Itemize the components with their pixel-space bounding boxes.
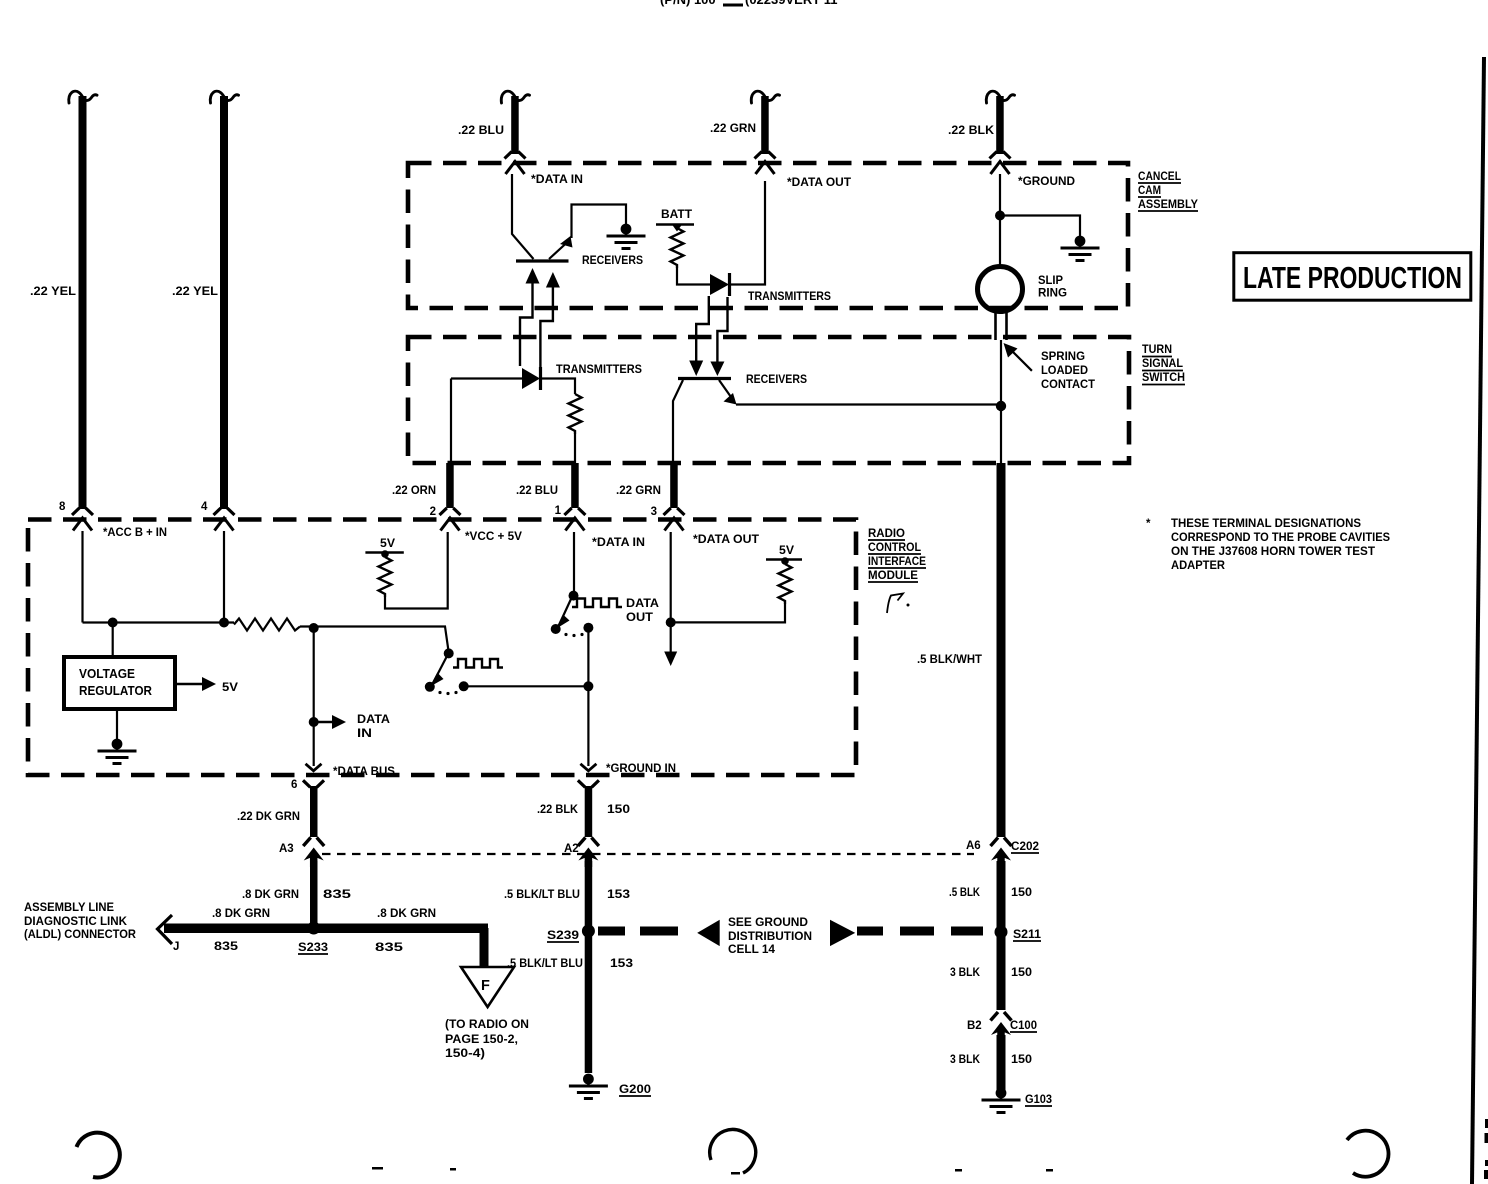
svg-text:INTERFACE: INTERFACE <box>868 556 926 568</box>
svg-text:SWITCH: SWITCH <box>1142 372 1185 384</box>
svg-text:A6: A6 <box>966 840 981 852</box>
svg-text:RADIO: RADIO <box>868 528 905 540</box>
svg-text:OUT: OUT <box>626 612 653 624</box>
svg-text:S211: S211 <box>1013 929 1042 941</box>
svg-text:153: 153 <box>607 889 630 901</box>
svg-text:150: 150 <box>607 804 630 816</box>
svg-text:BATT: BATT <box>661 209 692 221</box>
svg-text:*GROUND: *GROUND <box>1018 176 1075 188</box>
svg-text:3 BLK: 3 BLK <box>950 967 981 979</box>
svg-text:.5 BLK/WHT: .5 BLK/WHT <box>917 654 982 666</box>
svg-text:J: J <box>173 941 179 953</box>
svg-text:.22 YEL: .22 YEL <box>30 286 76 298</box>
svg-text:S239: S239 <box>547 930 579 942</box>
svg-text:.22 GRN: .22 GRN <box>616 485 661 497</box>
svg-text:A2: A2 <box>564 843 579 855</box>
svg-text:DIAGNOSTIC LINK: DIAGNOSTIC LINK <box>24 916 128 928</box>
svg-text:5V: 5V <box>222 682 238 694</box>
svg-text:835: 835 <box>375 942 404 954</box>
svg-text:C202: C202 <box>1011 841 1039 853</box>
svg-text:CORRESPOND TO THE PROBE CAVITI: CORRESPOND TO THE PROBE CAVITIES <box>1171 532 1390 544</box>
svg-text:835: 835 <box>214 941 239 953</box>
svg-text:CELL 14: CELL 14 <box>728 944 776 956</box>
svg-text:CONTROL: CONTROL <box>868 542 921 554</box>
svg-text:6: 6 <box>291 779 297 791</box>
svg-text:LATE PRODUCTION: LATE PRODUCTION <box>1243 261 1462 295</box>
svg-text:TURN: TURN <box>1142 344 1172 356</box>
svg-text:S233: S233 <box>298 942 328 954</box>
svg-text:DATA: DATA <box>357 714 390 726</box>
svg-text:4: 4 <box>201 501 208 513</box>
svg-text:3: 3 <box>651 506 657 518</box>
svg-text:*DATA OUT: *DATA OUT <box>693 534 759 546</box>
svg-text:G103: G103 <box>1025 1094 1052 1106</box>
svg-text:*GROUND IN: *GROUND IN <box>606 763 676 775</box>
svg-text:(TO RADIO ON: (TO RADIO ON <box>445 1019 529 1031</box>
svg-text:3 BLK: 3 BLK <box>950 1054 981 1066</box>
svg-text:CANCEL: CANCEL <box>1138 171 1181 183</box>
svg-text:DISTRIBUTION: DISTRIBUTION <box>728 931 812 943</box>
svg-text:150: 150 <box>1011 887 1032 899</box>
svg-text:150: 150 <box>1011 1054 1032 1066</box>
svg-text:RING: RING <box>1038 288 1067 300</box>
svg-text:*: * <box>1146 518 1151 530</box>
svg-text:SLIP: SLIP <box>1038 275 1063 287</box>
svg-text:8: 8 <box>59 501 66 513</box>
svg-text:.5 BLK/LT BLU: .5 BLK/LT BLU <box>504 889 580 901</box>
svg-text:THESE TERMINAL DESIGNATIONS: THESE TERMINAL DESIGNATIONS <box>1171 518 1361 530</box>
svg-text:.22 ORN: .22 ORN <box>392 485 436 497</box>
svg-text:*VCC + 5V: *VCC + 5V <box>465 531 522 543</box>
svg-text:*ACC B + IN: *ACC B + IN <box>103 527 167 539</box>
svg-text:1: 1 <box>555 505 562 517</box>
svg-text:PAGE 150-2,: PAGE 150-2, <box>445 1034 518 1046</box>
svg-text:.22 GRN: .22 GRN <box>710 123 756 135</box>
svg-text:.22 BLK: .22 BLK <box>948 125 995 137</box>
svg-text:153: 153 <box>610 958 633 970</box>
svg-text:.8 DK GRN: .8 DK GRN <box>212 908 270 920</box>
svg-text:.22 BLK: .22 BLK <box>537 804 579 816</box>
svg-text:2: 2 <box>430 506 436 518</box>
svg-text:*DATA BUS: *DATA BUS <box>333 766 395 778</box>
svg-text:150: 150 <box>1011 967 1032 979</box>
svg-text:.22 YEL: .22 YEL <box>172 286 218 298</box>
svg-text:TRANSMITTERS: TRANSMITTERS <box>556 364 642 376</box>
svg-text:SPRING: SPRING <box>1041 351 1085 363</box>
svg-text:*DATA IN: *DATA IN <box>592 537 645 549</box>
svg-text:ON THE J37608 HORN TOWER TEST: ON THE J37608 HORN TOWER TEST <box>1171 546 1375 558</box>
svg-text:5V: 5V <box>779 545 794 557</box>
svg-text:DATA: DATA <box>626 598 659 610</box>
svg-text:.22 BLU: .22 BLU <box>458 125 504 137</box>
svg-text:TRANSMITTERS: TRANSMITTERS <box>748 291 831 303</box>
svg-text:.22 DK GRN: .22 DK GRN <box>237 811 300 823</box>
svg-text:REGULATOR: REGULATOR <box>79 684 152 698</box>
svg-text:ASSEMBLY: ASSEMBLY <box>1138 199 1198 211</box>
svg-text:150-4): 150-4) <box>445 1048 485 1060</box>
svg-text:(P/N) 100: (P/N) 100 <box>660 0 716 7</box>
svg-text:VOLTAGE: VOLTAGE <box>79 667 135 681</box>
svg-text:SEE GROUND: SEE GROUND <box>728 917 808 929</box>
svg-text:CONTACT: CONTACT <box>1041 379 1095 391</box>
svg-text:B2: B2 <box>967 1020 982 1032</box>
svg-text:CAM: CAM <box>1138 185 1161 197</box>
svg-text:F: F <box>481 978 490 994</box>
svg-text:.8 DK GRN: .8 DK GRN <box>377 908 436 920</box>
svg-text:.22 BLU: .22 BLU <box>516 485 558 497</box>
svg-text:5V: 5V <box>380 538 395 550</box>
svg-text:.8 DK GRN: .8 DK GRN <box>242 889 299 901</box>
svg-text:RECEIVERS: RECEIVERS <box>746 374 807 386</box>
svg-text:ASSEMBLY LINE: ASSEMBLY LINE <box>24 902 114 914</box>
svg-text:MODULE: MODULE <box>868 570 918 582</box>
svg-text:IN: IN <box>357 728 372 740</box>
svg-text:SIGNAL: SIGNAL <box>1142 358 1183 370</box>
svg-text:A3: A3 <box>279 843 294 855</box>
svg-text:835: 835 <box>323 889 352 901</box>
svg-text:(02239VERT 11: (02239VERT 11 <box>745 0 838 7</box>
svg-text:ADAPTER: ADAPTER <box>1171 560 1226 572</box>
svg-text:LOADED: LOADED <box>1041 365 1088 377</box>
svg-text:*DATA OUT: *DATA OUT <box>787 177 851 189</box>
svg-text:*DATA IN: *DATA IN <box>531 174 583 186</box>
svg-text:G200: G200 <box>619 1084 651 1096</box>
svg-text:C100: C100 <box>1010 1020 1037 1032</box>
svg-text:.5 BLK/LT BLU: .5 BLK/LT BLU <box>507 958 583 970</box>
svg-text:(ALDL) CONNECTOR: (ALDL) CONNECTOR <box>24 929 137 941</box>
svg-text:RECEIVERS: RECEIVERS <box>582 255 643 267</box>
svg-text:.5 BLK: .5 BLK <box>949 887 981 899</box>
